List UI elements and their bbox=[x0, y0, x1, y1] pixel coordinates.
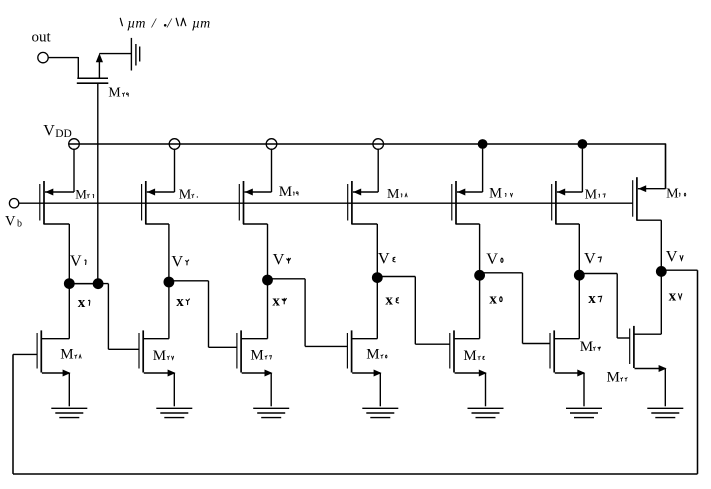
svg-text:V: V bbox=[486, 249, 498, 268]
svg-text:M: M bbox=[387, 187, 400, 202]
svg-text:M: M bbox=[179, 188, 192, 203]
svg-text:DD: DD bbox=[55, 128, 72, 140]
svg-text:out: out bbox=[32, 30, 52, 46]
svg-text:M: M bbox=[250, 348, 263, 364]
svg-text:M: M bbox=[60, 347, 73, 363]
svg-text:/: / bbox=[166, 16, 172, 31]
svg-text:/: / bbox=[151, 16, 157, 31]
svg-text:M: M bbox=[279, 184, 292, 200]
svg-text:x: x bbox=[489, 291, 497, 307]
svg-text:V: V bbox=[666, 247, 678, 266]
svg-text:V: V bbox=[378, 249, 390, 268]
svg-text:M: M bbox=[463, 348, 476, 364]
svg-text:V: V bbox=[273, 250, 285, 269]
svg-text:V: V bbox=[70, 251, 82, 270]
svg-text:V: V bbox=[43, 123, 55, 140]
svg-text:V: V bbox=[584, 248, 596, 267]
svg-text:µm: µm bbox=[127, 16, 145, 31]
svg-text:M: M bbox=[75, 187, 87, 202]
svg-text:M: M bbox=[585, 187, 598, 202]
svg-text:x: x bbox=[272, 293, 280, 309]
svg-text:M: M bbox=[108, 84, 120, 99]
svg-text:V: V bbox=[5, 213, 16, 229]
svg-text:M: M bbox=[489, 186, 502, 202]
svg-text:x: x bbox=[78, 295, 86, 311]
svg-text:M: M bbox=[153, 348, 166, 364]
svg-text:x: x bbox=[385, 293, 393, 309]
svg-text:M: M bbox=[580, 339, 593, 355]
svg-text:x: x bbox=[176, 294, 184, 310]
svg-text:x: x bbox=[669, 289, 677, 305]
svg-text:M: M bbox=[666, 186, 679, 201]
svg-text:M: M bbox=[366, 347, 379, 363]
svg-text:x: x bbox=[588, 291, 596, 307]
svg-text:M: M bbox=[607, 370, 620, 386]
svg-text:µm: µm bbox=[192, 16, 210, 31]
svg-text:V: V bbox=[171, 251, 183, 270]
svg-text:b: b bbox=[17, 218, 22, 229]
